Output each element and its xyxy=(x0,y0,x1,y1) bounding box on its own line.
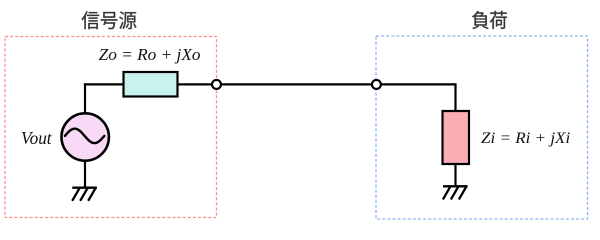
svg-text:Zi = Ri + jXi: Zi = Ri + jXi xyxy=(481,129,570,147)
title char 負 xyxy=(472,11,489,29)
title char 源 xyxy=(119,11,136,29)
impedance box Zo (cyan) xyxy=(124,72,178,97)
wire: load vertical down to Zi box xyxy=(454,83,456,111)
wire: Zi box bottom to ground xyxy=(454,164,456,187)
wire: source bottom to ground xyxy=(84,161,86,188)
sine wave inside source xyxy=(65,129,104,143)
title char 信 xyxy=(82,11,100,29)
AC source Vout (circle with sine) xyxy=(61,113,108,160)
svg-text:Zo = Ro + jXo: Zo = Ro + jXo xyxy=(99,45,201,64)
ground (under source) xyxy=(72,187,97,201)
wire: node A to node B (transmission line) xyxy=(221,83,372,85)
wire: node B to load corner xyxy=(381,83,456,85)
wire: Zo box right to node A xyxy=(177,83,212,85)
node A (open circle) xyxy=(212,80,221,89)
signal-source dashed box (信号源 region) xyxy=(5,37,217,218)
title char 号 xyxy=(101,12,118,29)
wire: corner to Zo box left xyxy=(84,83,124,85)
load impedance box Zi (pink) xyxy=(443,111,470,164)
load dashed box (負荷 region) xyxy=(376,36,588,219)
title char 荷 xyxy=(490,11,507,29)
ground (under load) xyxy=(443,186,468,200)
wire: source top vertical (85,112)-(85,84.4) xyxy=(84,83,86,112)
svg-text:Vout: Vout xyxy=(21,128,53,148)
node B (open circle) xyxy=(372,80,381,89)
